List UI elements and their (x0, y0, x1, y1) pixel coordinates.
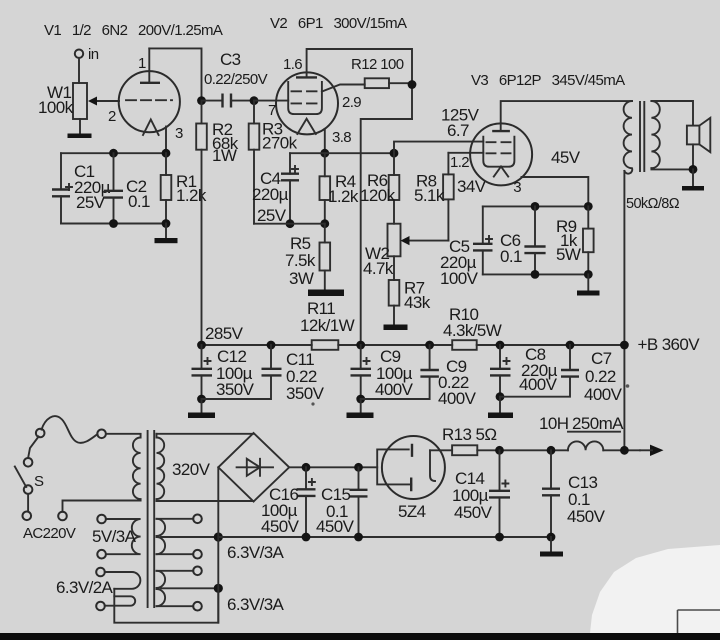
wire input to W1 (78, 58, 80, 83)
6.3V/2A terminal bottom (96, 602, 105, 611)
T1 5V winding (106, 519, 141, 554)
node C3 R2 junction (197, 96, 206, 105)
svg-text:1.2k: 1.2k (328, 187, 359, 206)
svg-text:100V: 100V (440, 269, 479, 288)
resistor R2 (196, 101, 239, 345)
input terminal in (75, 46, 99, 63)
node rail C9a (356, 341, 365, 350)
svg-text:120k: 120k (360, 186, 396, 205)
svg-text:5W: 5W (556, 245, 581, 264)
wire W1 to ground (79, 119, 81, 133)
node C13 top (547, 446, 556, 455)
wire B+ rail left (202, 344, 312, 346)
6.3V/3A upper terminal bottom (193, 550, 202, 559)
node rail 285V (197, 341, 206, 350)
resistor R8 (414, 153, 454, 241)
power transformer T1 primary winding (63, 434, 141, 512)
wire V2 grid (254, 100, 288, 102)
wire bus ground stem (550, 537, 552, 552)
wire cathode bottom rail (254, 223, 325, 225)
wire choke to B+ (603, 449, 640, 451)
switch terminal upper (24, 458, 33, 467)
wire bridge output (289, 466, 377, 468)
wire R9 to ground (587, 274, 589, 290)
T1 6.3V/2A winding (105, 572, 141, 606)
svg-text:450V: 450V (567, 507, 606, 526)
ground under speaker (682, 186, 704, 191)
node rail B plus (620, 341, 629, 350)
wire lower center tap (161, 587, 218, 589)
svg-text:6.3V/3A: 6.3V/3A (227, 543, 285, 562)
wire jog to V3 screen (394, 142, 483, 154)
capacitor C13 (542, 450, 606, 537)
node C15 bottom (354, 533, 363, 542)
resistor R7 (389, 256, 431, 324)
5V terminal top (97, 515, 106, 524)
wire V2 screen to R12 (322, 85, 365, 92)
wire C8 ground stem (499, 397, 501, 413)
beam tetrode V2 (268, 56, 361, 146)
svg-text:AC220V: AC220V (23, 525, 76, 542)
wire C12 ground stem (201, 399, 203, 413)
svg-text:3: 3 (175, 125, 183, 142)
svg-text:4.7k: 4.7k (363, 259, 394, 278)
svg-text:5Z4: 5Z4 (398, 502, 426, 521)
svg-text:3W: 3W (289, 269, 314, 288)
node V1 cathode bottom rail (61, 223, 166, 225)
svg-text:25V: 25V (76, 193, 106, 212)
wire secondary top to speaker (651, 101, 693, 126)
svg-text:5.1k: 5.1k (414, 186, 445, 205)
node choke output (620, 446, 629, 455)
wire V3 cathode (522, 177, 589, 206)
wire cathode network bottom (483, 273, 589, 275)
scan white patch bottom right (590, 545, 720, 633)
svg-text:400V: 400V (519, 375, 558, 394)
resistor R5 (285, 224, 330, 289)
svg-text:0.22/250V: 0.22/250V (204, 71, 268, 88)
T1 6.3V/3A winding upper (157, 519, 166, 554)
node ground bus end (547, 533, 556, 542)
capacitor C8 (490, 345, 558, 397)
svg-text:400V: 400V (584, 385, 623, 404)
6.3V/3A upper terminal top (193, 515, 202, 524)
node V2 grid junction (250, 96, 259, 105)
svg-text:2: 2 (108, 108, 116, 125)
svg-text:1W: 1W (212, 146, 237, 165)
node rail C7 (566, 341, 575, 350)
wire bridge left corner down (217, 467, 219, 622)
capacitor C16 (261, 467, 316, 537)
ground under R5 (308, 290, 344, 297)
svg-text:45V: 45V (551, 148, 581, 167)
svg-text:S: S (34, 473, 44, 490)
svg-text:6.3V/2A: 6.3V/2A (56, 578, 114, 597)
wire V2 cathode lead (324, 129, 326, 153)
6.3V/2A terminal top (96, 568, 105, 577)
svg-text:100k: 100k (38, 98, 74, 117)
svg-text:0.1: 0.1 (128, 192, 150, 211)
svg-text:400V: 400V (438, 389, 477, 408)
capacitor C12 (192, 345, 255, 399)
wire upper center tap (161, 536, 218, 538)
svg-text:400V: 400V (375, 380, 414, 399)
svg-text:12k/1W: 12k/1W (300, 316, 355, 335)
wire to switch (28, 437, 38, 459)
node cathode network top (483, 205, 589, 207)
svg-text:2.9: 2.9 (342, 94, 361, 111)
capacitor C9a (351, 345, 414, 399)
wire speaker to ground (692, 169, 694, 186)
node R12 plate junction (408, 80, 417, 89)
node rail C9b (425, 341, 434, 350)
primary return terminal (58, 512, 67, 521)
wire 6.3V/2A tap to common (114, 588, 218, 622)
node V2 cathode (320, 149, 329, 158)
mains terminal top left (36, 429, 45, 438)
svg-text:10H: 10H (539, 414, 568, 433)
wire C9a ground stem (360, 399, 362, 413)
speaker (687, 118, 710, 170)
ground under R7 (384, 325, 408, 331)
ground under R9 (577, 291, 600, 296)
mains terminal top right (97, 430, 106, 439)
capacitor C6 (500, 206, 546, 274)
black scan bar bottom (0, 633, 720, 640)
ground under C9a (347, 413, 374, 419)
resistor R9 (556, 206, 594, 274)
bridge rectifier D1 (218, 433, 289, 502)
T1 secondary 320V winding (157, 434, 165, 501)
svg-text:1.6: 1.6 (283, 56, 302, 73)
ground under R1 (155, 238, 178, 243)
svg-text:250mA: 250mA (572, 414, 624, 433)
switch S blade (15, 467, 26, 488)
node V1 cathode rail (61, 152, 166, 154)
svg-text:43k: 43k (404, 293, 431, 312)
svg-text:C7: C7 (591, 349, 612, 368)
svg-text:270k: 270k (262, 134, 298, 153)
svg-text:450V: 450V (261, 517, 300, 536)
wire plate supply drop (361, 119, 412, 345)
potentiometer W1 (38, 83, 119, 119)
wire V1 plate top run (149, 48, 201, 100)
svg-text:R12 100: R12 100 (351, 56, 404, 73)
arrow B+ output (650, 445, 664, 456)
wire ground bus (218, 536, 551, 538)
node C14 bottom (495, 533, 504, 542)
svg-text:3.8: 3.8 (332, 129, 351, 146)
resistor R11 (300, 299, 355, 350)
node C9a bottom (356, 395, 365, 404)
svg-text:350V: 350V (286, 384, 325, 403)
svg-text:7: 7 (268, 102, 276, 119)
ground under W1 (68, 134, 92, 139)
svg-text:0.22: 0.22 (585, 367, 616, 386)
output transformer core (640, 102, 644, 171)
svg-text:450V: 450V (454, 503, 493, 522)
wire V3 grid (448, 152, 483, 154)
wire V2 cathode rail (290, 152, 394, 154)
node C15 top (354, 463, 363, 472)
output transformer T2 secondary (651, 101, 659, 168)
svg-text:R13 5Ω: R13 5Ω (442, 425, 496, 444)
ground under bus (540, 552, 563, 557)
wire V2 plate top run (307, 49, 412, 119)
svg-text:in: in (88, 46, 99, 63)
svg-text:3: 3 (513, 179, 521, 196)
wire B+ rail right (477, 344, 625, 346)
ground under C12 (188, 413, 215, 419)
capacitor C3 (202, 50, 268, 108)
choke L1 (568, 441, 603, 450)
capacitor C15 (316, 467, 368, 537)
capacitor C2 (104, 153, 150, 223)
node center tap upper (214, 532, 223, 541)
svg-text:25V: 25V (257, 206, 287, 225)
scan speck near choke (626, 384, 630, 388)
capacitor C1 (52, 153, 111, 223)
T1 6.3V/3A winding lower (157, 571, 166, 606)
svg-text:7.5k: 7.5k (285, 251, 316, 270)
svg-text:450V: 450V (316, 517, 355, 536)
resistor R3 (249, 101, 298, 224)
svg-text:5V/3A: 5V/3A (92, 527, 137, 546)
mains terminal bottom (23, 512, 32, 521)
capacitor C11 (202, 345, 325, 403)
wire V1 cathode lead (165, 127, 167, 154)
triode V1 (108, 48, 183, 142)
scan corner mark vertical (677, 610, 679, 633)
svg-text:4.3k/5W: 4.3k/5W (443, 321, 502, 340)
node rail C11 (267, 341, 276, 350)
svg-text:6.7: 6.7 (447, 121, 469, 140)
svg-text:285V: 285V (205, 324, 244, 343)
wire 5Z4 cathode out (430, 449, 452, 451)
svg-text:6.3V/3A: 6.3V/3A (227, 595, 285, 614)
svg-text:0.1: 0.1 (500, 247, 522, 266)
transformer T1 core (148, 431, 155, 607)
5V terminal bottom (97, 550, 106, 559)
wire V3 plate top run (501, 101, 632, 131)
node C16 bottom (302, 533, 311, 542)
rectifier tube 5Z4 (377, 436, 445, 521)
wire B+ rail middle (338, 344, 452, 346)
node C4 bottom (286, 219, 295, 228)
wire R1 to ground (165, 224, 167, 239)
capacitor C9b (361, 345, 477, 408)
node center tap lower (214, 584, 223, 593)
switch terminal lower (24, 485, 33, 494)
scan corner mark horizontal (678, 609, 720, 611)
svg-text:V3 6P12P 345V/45mA: V3 6P12P 345V/45mA (471, 72, 625, 89)
node C8 bottom (496, 392, 505, 401)
svg-text:V1 1/2 6N2 200V/1.25mA: V1 1/2 6N2 200V/1.25mA (44, 22, 223, 39)
scan speck near R11 (311, 402, 314, 405)
resistor R6 (360, 153, 399, 224)
wire R13 to choke (477, 449, 568, 451)
node C14 top (495, 446, 504, 455)
svg-text:C3: C3 (220, 50, 241, 69)
svg-text:220µ: 220µ (252, 185, 289, 204)
wire switch to bottom terminal (27, 494, 29, 512)
wire primary to B+ rail (623, 171, 625, 450)
svg-text:+B 360V: +B 360V (638, 335, 701, 354)
node speaker return (689, 165, 698, 174)
capacitor C4 (252, 153, 299, 225)
svg-text:1.2: 1.2 (450, 154, 469, 171)
wire mains squiggle (42, 416, 98, 443)
beam tetrode V3 (470, 123, 532, 196)
node R4 bottom (320, 219, 329, 228)
resistor R4 (320, 153, 359, 224)
wire 320V bottom to bridge (157, 500, 254, 502)
svg-text:50kΩ/8Ω: 50kΩ/8Ω (626, 196, 680, 212)
node C12 bottom (197, 395, 206, 404)
svg-text:350V: 350V (216, 380, 255, 399)
resistor R13 (442, 425, 496, 455)
resistor R1 (161, 153, 207, 223)
node C16 top (302, 463, 311, 472)
resistor R12 (351, 56, 412, 88)
6.3V/3A lower terminal bottom (193, 602, 202, 611)
capacitor C14 (452, 450, 510, 537)
capacitor C5 (440, 206, 493, 288)
output transformer T2 primary (624, 101, 633, 174)
resistor R10 (443, 305, 502, 350)
svg-text:1: 1 (138, 55, 146, 72)
wire 320V top to bridge (157, 433, 254, 435)
ground under C8 (488, 413, 513, 419)
potentiometer W2 (363, 224, 448, 278)
node R6 top (390, 149, 399, 158)
svg-text:320V: 320V (172, 460, 211, 479)
svg-text:V2 6P1 300V/15mA: V2 6P1 300V/15mA (270, 15, 407, 32)
capacitor C7 (500, 345, 623, 404)
wire secondary bottom (651, 168, 693, 169)
6.3V/3A lower terminal top (193, 567, 202, 576)
node rail C8 (496, 341, 505, 350)
